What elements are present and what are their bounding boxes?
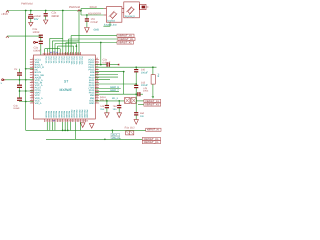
- svg-text:53: 53: [96, 90, 98, 93]
- wire flag vertical to chip: [78, 11, 80, 55]
- global label net2: [118, 38, 135, 41]
- svg-text:15n: 15n: [113, 108, 118, 111]
- svg-text:55: 55: [96, 96, 98, 99]
- capacitor CD right: [134, 67, 138, 85]
- junction net3 bus top: [100, 42, 102, 44]
- ground CG: [134, 120, 138, 125]
- capacitor C5x col: [117, 101, 121, 113]
- svg-text:VCC5A: VCC5A: [57, 56, 60, 64]
- junction capF column: [135, 93, 137, 95]
- svg-text:51: 51: [96, 85, 98, 88]
- svg-text:PBX16B: PBX16B: [85, 110, 88, 118]
- left pin names: [35, 58, 45, 105]
- wire label rowA: [95, 88, 121, 90]
- svg-text:VCC14A: VCC14A: [80, 56, 83, 65]
- capacitor C3a: [39, 35, 43, 41]
- left pin stubs: [30, 60, 34, 104]
- svg-text:ST: ST: [64, 80, 68, 84]
- svg-text:PBX2B: PBX2B: [50, 111, 53, 118]
- svg-text:680nF: 680nF: [52, 15, 60, 18]
- svg-text:VCC3A: VCC3A: [52, 56, 55, 64]
- capacitor C4a: [17, 69, 22, 80]
- wire top rail Vdd: [7, 10, 81, 12]
- global label railB 1: [142, 137, 160, 140]
- svg-text:PBX1B: PBX1B: [47, 111, 50, 118]
- wire under X1: [103, 22, 110, 26]
- svg-text:VCC4A: VCC4A: [55, 56, 58, 64]
- svg-text:VCC6A: VCC6A: [60, 56, 63, 64]
- junctions rail A: [62, 130, 64, 132]
- svg-text:J8WE_B: J8WE_B: [110, 86, 119, 89]
- svg-text:9: 9: [32, 78, 33, 81]
- junction rail B connect: [104, 138, 106, 140]
- svg-text:50: 50: [96, 83, 98, 86]
- ground C5x: [117, 113, 122, 118]
- diode D2 box: [131, 98, 137, 104]
- junction XI cap: [86, 14, 88, 16]
- wire rail B: [46, 138, 142, 140]
- top pin stubs: [45, 52, 81, 55]
- wire rail A: [26, 129, 146, 131]
- svg-text:PBX10B: PBX10B: [70, 110, 73, 118]
- svg-text:100uF: 100uF: [141, 71, 149, 74]
- junction vdd right 2: [152, 66, 154, 68]
- junction mid rail: [62, 10, 64, 12]
- wire net1 run: [71, 36, 117, 55]
- svg-text:6.80nF: 6.80nF: [33, 50, 41, 53]
- wire mesh above chip top pins: [45, 38, 79, 55]
- capacitor C3b: [39, 41, 43, 55]
- svg-text:17: 17: [31, 98, 33, 101]
- wire cap row right: [95, 93, 137, 95]
- ground under chip 2: [89, 124, 94, 129]
- svg-text:4: 4: [32, 65, 33, 68]
- wire left vertical bus: [25, 11, 27, 131]
- wire vdda row: [95, 83, 136, 85]
- capacitor C osc: [85, 15, 89, 27]
- capacitor CE right: [134, 85, 138, 94]
- svg-text:PWR/Vdd: PWR/Vdd: [69, 6, 81, 9]
- svg-text:8: 8: [32, 75, 33, 78]
- svg-text:100nF: 100nF: [33, 31, 41, 34]
- svg-text:VCC12A: VCC12A: [75, 56, 78, 65]
- svg-text:10n: 10n: [140, 115, 145, 118]
- svg-text:PBX15B: PBX15B: [83, 110, 86, 118]
- svg-text:PBX8B: PBX8B: [65, 111, 68, 118]
- svg-text:VCC13A: VCC13A: [78, 56, 81, 65]
- power flag left of C3b: [35, 41, 38, 43]
- svg-text:100x: 100x: [143, 90, 149, 93]
- svg-text:40: 40: [96, 57, 98, 60]
- wire XI: [81, 14, 104, 16]
- svg-text:PBX11B: PBX11B: [73, 110, 76, 118]
- op chip U1 body: [34, 55, 96, 119]
- capacitor C4x col: [105, 101, 109, 113]
- bottom pin names: [45, 110, 89, 118]
- svg-text:11: 11: [31, 83, 33, 86]
- svg-text:XBRST_KL: XBRST_KL: [147, 129, 161, 132]
- ground below C2: [44, 20, 48, 24]
- junction net3 bus bottom: [100, 64, 102, 66]
- svg-text:49: 49: [96, 80, 98, 83]
- junction cap cols: [106, 100, 108, 102]
- capacitor C right inline: [95, 64, 106, 66]
- svg-text:44: 44: [96, 67, 98, 70]
- svg-text:PM: PM: [157, 74, 160, 78]
- junction vdda column: [135, 83, 137, 85]
- svg-text:46: 46: [96, 73, 98, 76]
- svg-text:2: 2: [32, 60, 33, 63]
- svg-text:7: 7: [32, 73, 33, 76]
- wire bottom pin to rail B: [74, 122, 76, 139]
- svg-text:XBRST_KL: XBRST_KL: [144, 141, 160, 144]
- wire stub joining XO XI: [80, 9, 82, 15]
- wire bypass feed: [7, 35, 40, 37]
- svg-text:PBX14B: PBX14B: [80, 110, 83, 118]
- ground below C1: [29, 22, 33, 26]
- svg-text:15n: 15n: [100, 108, 105, 111]
- junction C4a: [19, 79, 21, 81]
- resistor R1x box: [126, 131, 134, 135]
- ground C4x: [105, 113, 110, 118]
- wire label tick: [120, 138, 122, 141]
- svg-text:VCC11A: VCC11A: [73, 56, 76, 65]
- wire label rowB: [95, 91, 119, 93]
- junction left bus: [25, 10, 27, 12]
- svg-text:J8WE_7: J8WE_7: [110, 89, 119, 92]
- svg-text:+3V3: +3V3: [1, 12, 8, 16]
- wire net2 run: [69, 39, 119, 55]
- wire long vdd right: [95, 66, 156, 68]
- junction right bus: [123, 71, 125, 73]
- svg-text:54: 54: [96, 93, 98, 96]
- ground below C osc: [85, 28, 90, 33]
- svg-text:VCC10A: VCC10A: [70, 56, 73, 65]
- wire vertical rail to chip: [62, 11, 64, 56]
- wire bottom pin corner to rail A: [79, 122, 81, 130]
- wire between crystal boxes: [122, 9, 124, 13]
- capacitor C1 electrolytic: [29, 10, 33, 23]
- right pin numbers: [96, 57, 98, 104]
- svg-text:C20uF: C20uF: [91, 21, 99, 24]
- svg-text:WL_h: WL_h: [112, 97, 119, 100]
- net label box railB 1: [111, 133, 120, 136]
- svg-text:VCC7A: VCC7A: [62, 56, 65, 64]
- svg-text:PBX7B: PBX7B: [62, 111, 65, 118]
- svg-text:PBX4B: PBX4B: [55, 111, 58, 118]
- capacitor C2: [44, 10, 48, 20]
- junction rail A connect: [112, 130, 114, 132]
- resistor R right: [151, 67, 155, 98]
- top pin names: [45, 56, 84, 65]
- wires bottom pins to rail A: [47, 122, 70, 130]
- svg-text:3: 3: [32, 62, 33, 65]
- global label netD1: [144, 99, 161, 102]
- svg-text:1: 1: [32, 57, 33, 60]
- svg-text:16V: 16V: [34, 18, 39, 21]
- svg-text:VCC2A: VCC2A: [50, 56, 53, 64]
- svg-text:XBRST_KL: XBRST_KL: [145, 103, 160, 106]
- capacitor CF inline: [138, 92, 140, 96]
- junctions on left bus: [25, 68, 27, 70]
- capacitor C4c: [17, 91, 22, 102]
- wire D row: [95, 100, 124, 102]
- capacitor C4b: [17, 80, 22, 91]
- svg-text:PBX9B: PBX9B: [68, 111, 71, 118]
- svg-text:12: 12: [31, 85, 33, 88]
- wire D to label: [137, 100, 144, 102]
- right pin names: [88, 58, 95, 105]
- svg-text:GND: GND: [89, 102, 95, 105]
- wire to label netD2: [138, 104, 144, 106]
- right pin stubs: [95, 60, 99, 104]
- pin stub X1 XO: [104, 8, 107, 10]
- wire net3 run: [66, 43, 117, 56]
- wire right bus from net3: [100, 43, 102, 65]
- svg-text:6.8uF: 6.8uF: [14, 107, 21, 110]
- svg-text:XBRST_KL: XBRST_KL: [118, 41, 133, 44]
- connector J1: [139, 4, 148, 9]
- svg-text:6: 6: [32, 70, 33, 73]
- crystal X1 box: [106, 7, 122, 23]
- global label net3: [117, 41, 134, 44]
- power flag left row: [3, 79, 5, 81]
- svg-text:R1x 18.2: R1x 18.2: [125, 127, 136, 130]
- svg-text:18: 18: [31, 101, 33, 104]
- svg-text:41: 41: [96, 60, 98, 63]
- pin stub X1 XI: [104, 14, 107, 16]
- svg-text:VCC9A: VCC9A: [68, 56, 71, 64]
- junction vdd right 1: [135, 66, 137, 68]
- crystal X2 box: [124, 2, 140, 18]
- global label railB 2: [142, 141, 160, 144]
- junction XO rail: [80, 10, 82, 12]
- svg-text:XO/JOOTR: XO/JOOTR: [88, 12, 101, 15]
- svg-text:VW_A: VW_A: [35, 102, 42, 105]
- diode D1 box: [125, 98, 131, 104]
- svg-text:fcrystal_b: fcrystal_b: [125, 15, 136, 18]
- wire left pin feed rows: [3, 69, 34, 102]
- svg-text:VCC1A: VCC1A: [47, 56, 50, 64]
- wire right rows: [95, 72, 123, 80]
- global label net1: [117, 34, 134, 37]
- svg-text:GND: GND: [94, 29, 100, 32]
- wire rails connect: [111, 130, 113, 139]
- svg-text:PWR/Vdd: PWR/Vdd: [21, 2, 33, 5]
- wire XO: [81, 8, 104, 10]
- node +3V3: [1, 11, 9, 17]
- capacitor CG col: [134, 94, 138, 119]
- svg-text:PBX13B: PBX13B: [78, 110, 81, 118]
- svg-text:PBX0B: PBX0B: [45, 111, 48, 118]
- svg-text:fcrystal: fcrystal: [107, 20, 115, 23]
- svg-text:15: 15: [31, 93, 33, 96]
- node PWR/Vdd flag right: [69, 6, 81, 12]
- left pin numbers: [31, 57, 33, 104]
- svg-text:PBX12B: PBX12B: [75, 110, 78, 118]
- svg-text:16: 16: [31, 96, 33, 99]
- svg-text:PBX5B: PBX5B: [57, 111, 60, 118]
- net label box railB 2: [111, 136, 120, 139]
- svg-text:VCC8A: VCC8A: [65, 56, 68, 64]
- blue marks top: [50, 51, 58, 53]
- bottom pin numbers: [45, 120, 89, 123]
- wire right bus vertical: [123, 72, 125, 95]
- power flag bypass row: [6, 36, 9, 38]
- svg-text:47: 47: [96, 75, 98, 78]
- global label netD2: [144, 103, 161, 106]
- svg-text:48: 48: [96, 78, 98, 81]
- svg-text:10: 10: [31, 80, 33, 83]
- junction mesh: [75, 45, 77, 47]
- svg-text:MX8WE: MX8WE: [60, 88, 73, 92]
- svg-text:PBX3B: PBX3B: [52, 111, 55, 118]
- svg-text:13: 13: [31, 88, 33, 91]
- blue marks bottom: [53, 120, 55, 122]
- svg-text:VCC0A: VCC0A: [45, 56, 48, 64]
- top pin numbers: [42, 52, 81, 55]
- junction C4b: [19, 90, 21, 92]
- bottom pin stubs: [45, 119, 86, 122]
- svg-text:1RC_A: 1RC_A: [112, 136, 120, 139]
- ground under chip 1: [80, 123, 85, 128]
- svg-text:PBX6B: PBX6B: [60, 111, 63, 118]
- global label railA: [146, 128, 161, 131]
